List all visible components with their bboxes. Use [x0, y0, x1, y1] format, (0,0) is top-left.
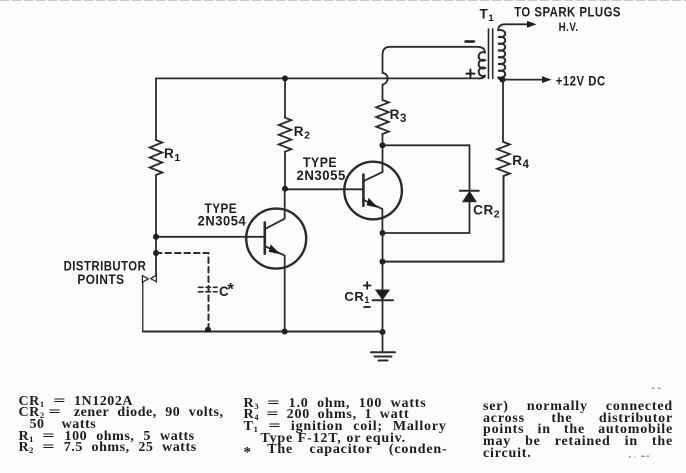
node: Q2 emitter / CR2 junction — [380, 230, 386, 236]
arrowhead: Q2 emitter — [367, 198, 379, 208]
svg-text:2N3054: 2N3054 — [198, 213, 247, 229]
transistor Q2 base lead — [285, 188, 363, 190]
wire: emitter node down to CR1 — [382, 233, 384, 290]
svg-text:+12V DC: +12V DC — [556, 72, 606, 88]
wire: R2 branch vertical — [284, 78, 286, 188]
node: R1 / Q1 base junction — [153, 234, 159, 240]
resistor R2 — [279, 118, 292, 152]
node: Q1 emitter / bottom rail junction — [282, 329, 288, 335]
transistor Q2 base bar — [362, 175, 365, 206]
transistor Q2 2N3055 circle — [344, 162, 402, 220]
svg-text:*: * — [227, 280, 234, 299]
svg-text:R2: R2 — [294, 124, 311, 142]
svg-text:CR2: CR2 — [473, 203, 500, 221]
node: junction secondary/+12V/R4 — [500, 77, 506, 83]
capacitor C plates — [199, 287, 218, 292]
resistor R3 — [376, 100, 389, 134]
transistor Q1 base lead — [156, 236, 265, 238]
node: R3 / collector / CR2 junction — [380, 142, 386, 148]
node: R2 / Q1 collector / Q2 base junction — [282, 186, 288, 192]
transistor Q1 emitter — [265, 246, 285, 331]
resistor R1 — [150, 140, 163, 175]
wire: T1 primary - lead going left and down to R3 (with hop over top rail) — [383, 47, 485, 100]
node: R4 / CR1 top junction — [380, 259, 386, 265]
polarity + of T1 primary — [466, 70, 474, 78]
svg-text:R1: R1 — [164, 146, 181, 164]
wire: R3 bottom to 2N3055 collector — [382, 134, 384, 172]
scan marks bottom right — [629, 388, 661, 458]
svg-text:H.V.: H.V. — [559, 20, 579, 34]
distributor points switch — [142, 275, 156, 331]
wire: CR1 to ground node — [382, 300, 384, 332]
svg-text:R3: R3 — [390, 107, 407, 125]
wire: R4 bottom down and left to CR1 node — [383, 176, 504, 262]
wire: from +12V node down to R4 — [502, 80, 504, 142]
transistor Q2 emitter — [363, 200, 382, 233]
svg-text:TO SPARK PLUGS: TO SPARK PLUGS — [514, 4, 621, 20]
arrowhead: +12V DC — [542, 76, 552, 83]
svg-text:POINTS: POINTS — [77, 271, 124, 287]
transformer T1 core — [489, 29, 493, 79]
node: points / capacitor branch junction — [153, 250, 159, 256]
transformer T1 primary winding — [479, 52, 485, 76]
transistor Q1 collector — [265, 189, 285, 229]
diode CR2 (zener, cathode up) — [460, 191, 479, 202]
note right column — [483, 401, 673, 459]
wire: +12V DC lead — [503, 79, 544, 81]
diode CR1 (cathode down) — [373, 290, 393, 300]
node: capacitor branch / bottom rail junction — [205, 327, 211, 333]
wire: collector node to CR2 top — [383, 145, 470, 190]
transistor Q1 base bar — [263, 223, 266, 254]
wire: top rail from R1 top to T1 primary + terminal — [156, 76, 485, 79]
wire: secondary bottom lead to +12V node — [498, 77, 502, 79]
svg-text:2N3055: 2N3055 — [297, 167, 346, 183]
svg-text:R4: R4 — [512, 153, 529, 171]
transformer T1 secondary winding — [498, 30, 505, 78]
polarity - of T1 primary — [466, 40, 475, 42]
resistor R4 — [497, 142, 510, 176]
parts list left column — [19, 396, 224, 454]
wire: CR2 bottom to emitter node — [383, 202, 470, 233]
transistor Q1 2N3054 circle — [246, 209, 306, 269]
wire: dashed capacitor branch — [156, 253, 209, 330]
top edge scan artifact line — [0, 0, 686, 2]
parts list middle column — [244, 398, 446, 460]
svg-text:CR1: CR1 — [344, 289, 370, 305]
wire: secondary top lead to spark plugs arrow — [498, 24, 528, 30]
node: top rail / R2 junction — [282, 75, 288, 81]
arrowhead: Q1 emitter — [269, 244, 281, 254]
transistor Q2 collector — [363, 172, 382, 181]
wire: bottom rail — [143, 331, 383, 333]
node: bottom rail / CR1 / ground junction — [380, 329, 386, 335]
ground — [371, 332, 395, 361]
arrowhead: to spark plugs — [527, 21, 537, 28]
wire: R1 branch vertical — [155, 78, 157, 276]
svg-text:T1: T1 — [480, 7, 495, 24]
